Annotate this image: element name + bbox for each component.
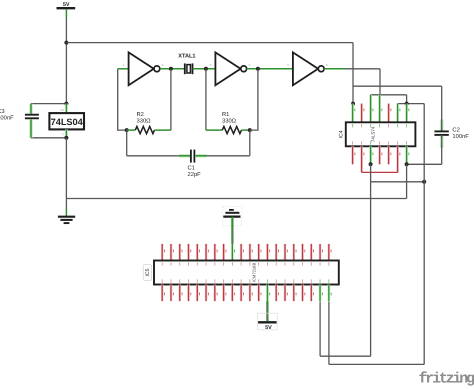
node junction IC4 pin link bbox=[405, 102, 409, 106]
IC5 pin top 12 (red) bbox=[257, 244, 260, 261]
IC5 pin top 10 (red) bbox=[240, 244, 243, 261]
wire R1 left riser bbox=[205, 69, 207, 130]
IC4 pin top 2 (red) bbox=[360, 104, 363, 123]
label R1 bbox=[222, 112, 237, 125]
IC5 pin top 8 (red) bbox=[222, 244, 225, 261]
IC4 pin bottom 5 (red) bbox=[387, 146, 390, 164]
wire clock vertical drop bbox=[379, 69, 381, 95]
IC4 pin top 1 (green) bbox=[351, 104, 354, 123]
wire net B horizontal bbox=[329, 363, 424, 365]
IC5 pin bottom 15 (red) bbox=[284, 285, 287, 302]
wire R2 left lead (green) bbox=[127, 129, 136, 131]
capacitor C2 bbox=[434, 131, 448, 135]
wire IC4 clock link bbox=[371, 94, 407, 96]
IC5 pin bottom 5 (red) bbox=[196, 285, 199, 302]
svg-text:330Ω: 330Ω bbox=[222, 118, 237, 125]
IC4 pin top 3 (green) bbox=[369, 95, 372, 123]
node junction at top rail tee bbox=[64, 41, 68, 45]
ground symbol GND1 bbox=[58, 217, 75, 223]
IC5 pin bottom 16 (red) bbox=[292, 285, 295, 302]
IC4 pin bottom 2 (red) bbox=[360, 146, 363, 172]
IC5 pin bottom 10 (red) bbox=[240, 285, 243, 302]
IC5 pin bottom 20 (green) bbox=[328, 285, 331, 302]
op-amp inverter gate U2C bbox=[293, 52, 324, 85]
svg-text:74LS04: 74LS04 bbox=[51, 117, 84, 127]
wire R1 right lead (green) bbox=[242, 129, 250, 131]
svg-text:IC4: IC4 bbox=[339, 130, 345, 138]
IC4 pin top 6 (green) bbox=[396, 104, 399, 123]
wire bottom rail right bbox=[207, 155, 250, 157]
wire inverter1 input riser bbox=[118, 69, 127, 130]
wire inverter3 output to IC4 bbox=[346, 68, 381, 70]
wire C2 top vertical bbox=[440, 86, 444, 130]
IC4 pin bottom 4 (red) bbox=[378, 146, 381, 164]
resistor R1 bbox=[222, 127, 241, 134]
svg-text:R1: R1 bbox=[222, 112, 229, 118]
wire R1 to inverter2 output bbox=[250, 69, 258, 130]
wire C3 top horizontal bbox=[31, 103, 66, 105]
wire GND2 to IC5 (green) bbox=[231, 217, 233, 244]
IC4 pin bottom 1 (red) bbox=[351, 146, 354, 164]
wire C3 bottom horizontal bbox=[31, 137, 66, 139]
svg-text:330Ω: 330Ω bbox=[137, 118, 152, 125]
node junction R1 right bbox=[248, 128, 252, 132]
node junction IC4 GND pin bbox=[405, 162, 409, 166]
svg-text:100nF: 100nF bbox=[452, 133, 469, 140]
wire IC4 top link2 bbox=[398, 103, 425, 105]
IC5 pin top 4 (red) bbox=[187, 244, 190, 261]
wire C1 left lead (green) bbox=[179, 154, 190, 157]
resistor R2 bbox=[135, 127, 154, 134]
svg-text:XTAL1: XTAL1 bbox=[178, 54, 195, 60]
wire crystal to inverter2 (green) bbox=[193, 68, 216, 70]
wire net A vertical bbox=[370, 164, 372, 356]
capacitor C1 bbox=[191, 150, 195, 163]
IC5 pin top 3 (red) bbox=[178, 244, 181, 261]
wire 74LS04 pin 7 (green) bbox=[65, 129, 68, 137]
node junction 74LS04 GND bbox=[64, 136, 68, 140]
wire inverter1 output (green) bbox=[160, 68, 185, 70]
wire IC5 to 5V (green) bbox=[266, 301, 268, 321]
wire IC4 link drop bbox=[406, 95, 408, 104]
IC5 pin top 15 (red) bbox=[284, 244, 287, 261]
node junction 74LS04 VCC bbox=[64, 102, 68, 106]
node junction inverter2 output bbox=[256, 67, 260, 71]
IC5 pin top 17 (red) bbox=[301, 244, 304, 261]
label C1 value bbox=[188, 165, 202, 178]
IC5 pin bottom 1 (red) bbox=[161, 285, 164, 302]
IC5 pin top 7 (red) bbox=[214, 244, 217, 261]
wire C1 right lead (green) bbox=[195, 154, 207, 157]
wire C2 bottom horizontal bbox=[407, 163, 442, 165]
svg-text:74LS74: 74LS74 bbox=[371, 126, 376, 142]
node junction IC4 VCC bbox=[351, 102, 355, 106]
power 5V supply symbol (bottom, inverted) bbox=[258, 313, 278, 331]
IC5 pin top 14 (red) bbox=[275, 244, 278, 261]
wire 5V lead (green) bbox=[65, 9, 67, 17]
svg-text:22pF: 22pF bbox=[188, 171, 202, 178]
IC5 pin bottom 12 (red) bbox=[257, 285, 260, 302]
node junction inverter1 output bbox=[169, 67, 173, 71]
svg-text:C2: C2 bbox=[452, 126, 459, 133]
crystal XTAL1 bbox=[185, 63, 193, 74]
IC5 pin bottom 3 (red) bbox=[178, 285, 181, 302]
node junction R2 left bbox=[125, 128, 129, 132]
node junction inverter2 input bbox=[204, 67, 208, 71]
wire top horizontal rail bbox=[66, 42, 353, 44]
ground symbol GND2 (inverted) bbox=[223, 206, 242, 226]
node junction IC4 pin b3 bbox=[369, 162, 373, 166]
wire net A riser to IC5 bbox=[319, 302, 321, 357]
wire R2 right riser bbox=[170, 69, 172, 130]
IC5 pin bottom 17 (red) bbox=[301, 285, 304, 302]
svg-text:fritzing: fritzing bbox=[419, 371, 474, 388]
IC5 pin bottom 7 (red) bbox=[214, 285, 217, 302]
label C2 value bbox=[452, 126, 469, 139]
IC4 pin top 5 (red) bbox=[387, 104, 390, 123]
wire C2 top rail bbox=[353, 85, 442, 87]
svg-text:5V: 5V bbox=[63, 2, 70, 8]
svg-text:ICM7218B: ICM7218B bbox=[252, 263, 257, 283]
power 5V supply symbol (top) bbox=[57, 2, 76, 8]
wire IC4 GND drop bbox=[406, 164, 408, 198]
wire inverter1 input (green) bbox=[118, 68, 129, 70]
node junction net A/B bbox=[422, 180, 426, 184]
wire red pin link bbox=[362, 171, 398, 173]
IC5 pin bottom 14 (red) bbox=[275, 285, 278, 302]
pin number marks ICs bbox=[162, 109, 409, 296]
IC4 pin top 7 (green) bbox=[405, 104, 408, 123]
IC5 pin bottom 18 (red) bbox=[310, 285, 313, 302]
IC5 pin bottom 8 (red) bbox=[222, 285, 225, 302]
IC4 pin bottom 6 (red) bbox=[396, 146, 399, 172]
wire R1 left lead (green) bbox=[206, 129, 222, 131]
IC5 pin bottom 13 (green) bbox=[266, 285, 269, 302]
op-amp 74LS04 IC body U1 bbox=[49, 113, 84, 129]
wire main vertical rail lower bbox=[65, 138, 67, 209]
wire net A horizontal bbox=[320, 355, 371, 357]
IC5 pin top 1 (red) bbox=[161, 244, 164, 261]
wire inverter3 output (green) bbox=[324, 68, 346, 70]
IC5 pin top 9 (green) bbox=[231, 244, 234, 261]
label R2 bbox=[137, 111, 152, 125]
IC5 pin bottom 4 (red) bbox=[187, 285, 190, 302]
wire feedback rail left drop bbox=[126, 130, 128, 156]
svg-text:7: 7 bbox=[62, 133, 64, 137]
wire net B riser to IC5 bbox=[328, 302, 330, 365]
wire C3 top lead (green) bbox=[29, 104, 32, 114]
capacitor C3 bbox=[25, 115, 39, 119]
svg-text:5V: 5V bbox=[265, 325, 272, 331]
wire R2 right lead (green) bbox=[155, 129, 171, 131]
wire C2 bottom vertical bbox=[440, 136, 444, 164]
wire 74LS04 pin 14 (green) bbox=[65, 104, 68, 114]
svg-text:IC5: IC5 bbox=[145, 268, 151, 276]
IC4 pin bottom 7 (green) bbox=[405, 146, 408, 164]
wire inverter2 output (green) bbox=[247, 68, 293, 70]
IC5 pin bottom 2 (red) bbox=[170, 285, 173, 302]
wire feedback rail right drop bbox=[249, 130, 251, 156]
wire ground lead (green) bbox=[65, 209, 67, 217]
op-amp inverter gate U2A bbox=[129, 52, 160, 85]
IC5 pin top 20 (red) bbox=[328, 244, 331, 261]
IC5 pin top 19 (red) bbox=[319, 244, 322, 261]
IC4 pin top 4 (green) bbox=[378, 95, 381, 123]
transistor IC5 display driver body bbox=[143, 261, 339, 285]
svg-text:100nF: 100nF bbox=[0, 114, 14, 121]
IC5 pin top 13 (red) bbox=[266, 244, 269, 261]
IC5 pin bottom 11 (red) bbox=[249, 285, 252, 302]
wire net A branch bbox=[371, 181, 425, 183]
wire IC4 VCC drop bbox=[352, 43, 354, 104]
wire C3 bottom lead (green) bbox=[29, 119, 32, 138]
IC5 pin top 18 (red) bbox=[310, 244, 313, 261]
transistor IC4 74LS74 body bbox=[339, 122, 416, 146]
wire ground horizontal rail bbox=[66, 198, 406, 200]
svg-text:14: 14 bbox=[60, 108, 64, 112]
IC5 pin bottom 6 (red) bbox=[205, 285, 208, 302]
IC5 pin top 16 (red) bbox=[292, 244, 295, 261]
IC5 pin bottom 9 (red) bbox=[231, 285, 234, 302]
label C3 value bbox=[0, 108, 14, 122]
svg-text:R2: R2 bbox=[137, 111, 144, 118]
IC5 pin top 11 (red) bbox=[249, 244, 252, 261]
svg-text:C1: C1 bbox=[188, 165, 195, 172]
svg-text:C3: C3 bbox=[0, 108, 5, 115]
IC4 pin bottom 3 (green) bbox=[369, 146, 372, 164]
wire main vertical rail upper (5V to IC pin) bbox=[65, 18, 67, 104]
IC5 pin bottom 19 (green) bbox=[319, 285, 322, 302]
wire bottom rail left bbox=[127, 155, 180, 157]
op-amp inverter gate U2B bbox=[215, 52, 246, 85]
IC5 pin top 6 (red) bbox=[205, 244, 208, 261]
IC5 pin top 5 (red) bbox=[196, 244, 199, 261]
wire net B vertical bbox=[423, 104, 425, 365]
IC5 pin top 2 (red) bbox=[170, 244, 173, 261]
